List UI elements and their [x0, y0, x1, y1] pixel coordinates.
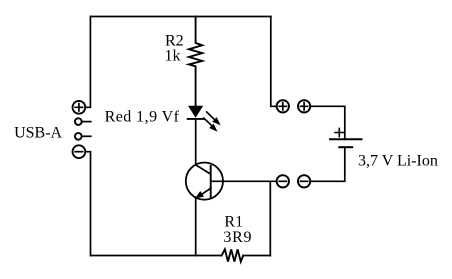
- wire: left rail from USB plus up to top rail: [85, 17, 90, 108]
- svg-text:3,7 V Li-Ion: 3,7 V Li-Ion: [358, 153, 438, 170]
- wire: left rail from USB minus down to bottom rail: [85, 152, 90, 256]
- LED D1: [188, 106, 204, 119]
- battery-side plus terminal (right): [298, 100, 310, 112]
- wire: top rail: [90, 16, 270, 18]
- USB-A data pin 2: [75, 133, 91, 140]
- svg-text:USB-A: USB-A: [14, 124, 62, 141]
- LED light emission arrows: [204, 112, 221, 132]
- resistor R2: [189, 17, 202, 106]
- transistor Q1: [186, 163, 223, 200]
- wire: plus terminal to battery positive plate: [310, 106, 345, 139]
- wire: transistor emitter down to bottom rail: [195, 198, 197, 256]
- svg-text:R1: R1: [224, 214, 243, 231]
- battery BT1: [330, 128, 362, 147]
- wire: battery negative plate to minus terminal: [310, 147, 345, 181]
- resistor R1: [222, 249, 244, 261]
- battery-side plus terminal (left): [277, 100, 289, 112]
- battery-side minus terminal (left): [277, 175, 289, 187]
- USB-A plus terminal: [73, 101, 86, 114]
- wire: bottom rail left of R1: [91, 255, 222, 257]
- wire: LED cathode to transistor collector: [195, 120, 197, 165]
- svg-text:3R9: 3R9: [223, 229, 252, 246]
- battery-side minus terminal (right): [298, 175, 310, 187]
- USB-A minus terminal: [73, 145, 86, 158]
- wire: right vertical from bottom rail up to base node: [269, 181, 271, 255]
- wire: bottom rail right of R1: [243, 255, 270, 257]
- wire: transistor base to minus terminal: [212, 180, 277, 182]
- wire: top right rail down to plus terminal: [271, 17, 277, 107]
- USB-A data pin 1: [75, 118, 91, 125]
- svg-text:1k: 1k: [165, 48, 181, 65]
- svg-text:Red 1,9 Vf: Red 1,9 Vf: [105, 108, 180, 125]
